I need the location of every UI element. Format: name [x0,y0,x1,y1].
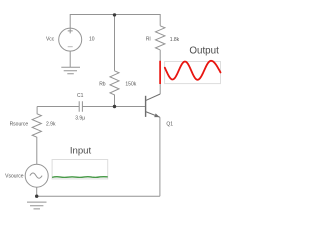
svg-text:3.9μ: 3.9μ [75,116,85,122]
svg-text:Rb: Rb [99,82,106,88]
svg-text:2.9k: 2.9k [46,121,56,127]
svg-text:10: 10 [89,37,95,43]
svg-text:Q1: Q1 [166,122,173,128]
svg-text:C1: C1 [77,93,84,99]
svg-text:Output: Output [189,45,219,56]
svg-text:Input: Input [70,145,92,156]
svg-text:Vsource: Vsource [5,174,24,180]
svg-text:Rsource: Rsource [10,121,29,127]
svg-text:150k: 150k [125,82,136,88]
svg-text:Vcc: Vcc [46,37,55,43]
svg-text:Rl: Rl [146,37,151,43]
svg-text:1.8k: 1.8k [170,37,180,43]
